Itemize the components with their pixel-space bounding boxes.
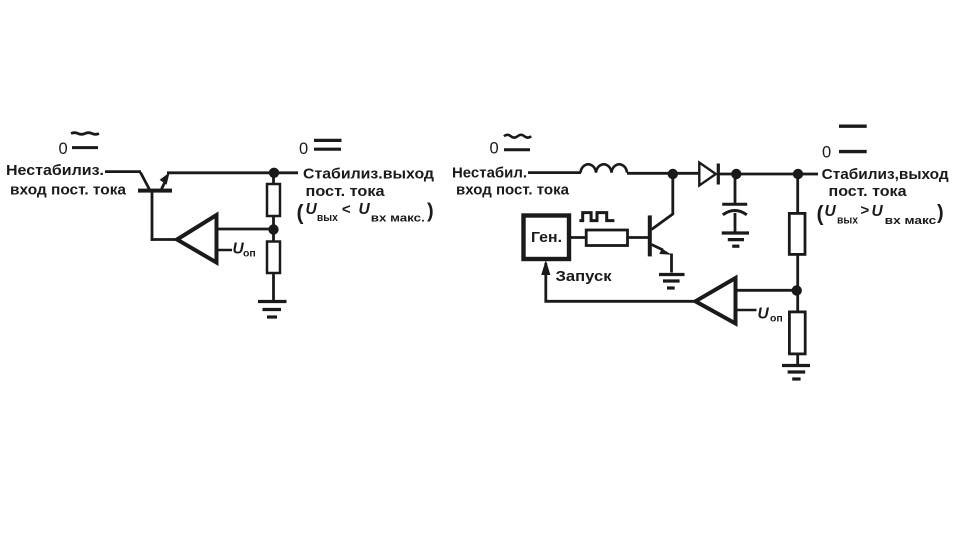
ground G3 (659, 275, 685, 289)
wire: U2 lower input stub (736, 309, 757, 312)
svg-text:пост. тока: пост. тока (306, 183, 386, 200)
svg-text:Стабилиз,выход: Стабилиз,выход (822, 166, 949, 183)
wire: R5 to ground (796, 354, 799, 365)
trigger arrow into generator (541, 260, 550, 300)
wire: node to R1 (272, 177, 275, 184)
wire: node B to node C (741, 173, 803, 176)
resistor R3 (586, 230, 627, 246)
wire: box to R3 (570, 236, 587, 239)
op-amp U2 (695, 278, 735, 324)
svg-text:0: 0 (822, 143, 831, 161)
DC symbol, left output (314, 140, 342, 149)
node: divider midpoint (268, 224, 278, 234)
svg-text:U: U (758, 306, 770, 323)
svg-text:U: U (872, 203, 884, 220)
transistor Q1 (138, 172, 172, 240)
wire: R2 to ground (272, 273, 275, 301)
svg-text:0: 0 (59, 140, 68, 158)
inductor L1 (581, 164, 628, 172)
wire: node B down to capacitor (734, 178, 737, 204)
wire: diode to node B (720, 173, 742, 176)
wire: node A down to Q2 collector (671, 178, 674, 215)
svg-text:вых: вых (317, 212, 339, 224)
svg-text:пост. тока: пост. тока (829, 183, 908, 200)
wire: mid node to op-amp input (217, 228, 271, 231)
wire: node C to output label (803, 173, 818, 176)
label: (Uвых < Uвх макс.) (297, 201, 434, 225)
wire: op-amp lower input stub (217, 249, 233, 252)
node: left output node (269, 168, 279, 178)
svg-text:вых: вых (837, 215, 859, 227)
DC-with-ripple symbol, left input (71, 133, 99, 148)
svg-text:Ген.: Ген. (531, 230, 562, 246)
wire: left input to Q1 emitter (105, 170, 141, 173)
svg-text:вх макс: вх макс (885, 215, 937, 227)
svg-text:U: U (306, 201, 318, 218)
wire: op-amp U2 output to trigger (544, 300, 696, 303)
wire: right input to inductor (528, 171, 581, 174)
node C: output node (793, 169, 803, 179)
svg-text:Нестабилиз.: Нестабилиз. (6, 162, 104, 179)
svg-text:вход пост. тока: вход пост. тока (456, 182, 570, 199)
svg-text:0: 0 (299, 140, 308, 158)
wire: Q1 collector to output node (167, 171, 298, 174)
wire: R4 to node D (796, 254, 799, 287)
wire: R1 to mid node (272, 216, 275, 229)
svg-text:): ) (427, 201, 434, 223)
wire: U2 upper input to node D (736, 289, 795, 292)
transistor Q2 (648, 214, 674, 273)
ground G1 (258, 302, 287, 318)
wire: node C down to R4 (796, 178, 799, 214)
svg-text:0: 0 (490, 140, 499, 158)
ground G2 (722, 233, 749, 246)
diode D1 (699, 163, 718, 186)
svg-text:<: < (342, 201, 351, 218)
node B: cap node (731, 169, 741, 179)
label: (Uвых > Uвх макс) (817, 202, 944, 227)
node D: feedback node (792, 285, 802, 295)
svg-text:U: U (825, 203, 837, 220)
wire: inductor to node A (627, 172, 699, 175)
capacitor C1 (722, 204, 747, 231)
wire: node D down to R5 (796, 294, 799, 312)
svg-text:Запуск: Запуск (556, 268, 613, 285)
svg-text:>: > (861, 202, 870, 219)
wire: R3 to Q2 base (628, 236, 649, 239)
svg-text:U: U (359, 201, 371, 218)
generator box Ген. (524, 216, 570, 260)
node A: switch node (668, 169, 678, 179)
ground G4 (782, 366, 810, 380)
pulse waveform symbol (579, 213, 614, 221)
svg-text:оп: оп (243, 248, 256, 260)
wire: op-amp output to Q1 base (151, 238, 178, 241)
resistor R2 (267, 242, 280, 274)
svg-text:Нестабил.: Нестабил. (452, 165, 527, 182)
svg-text:): ) (937, 202, 944, 224)
svg-text:(: ( (817, 203, 824, 226)
svg-text:Стабилиз.выход: Стабилиз.выход (303, 166, 434, 183)
svg-text:(: ( (297, 202, 304, 225)
DC-with-ripple symbol, right input (504, 135, 531, 150)
svg-text:вход пост. тока: вход пост. тока (10, 182, 127, 199)
wire: mid node to R2 (272, 234, 275, 242)
svg-text:оп: оп (770, 313, 783, 325)
DC symbol, right output (839, 126, 867, 151)
resistor R4 (789, 213, 805, 254)
resistor R1 (267, 184, 280, 216)
resistor R5 (789, 312, 805, 354)
svg-text:вх макс.: вх макс. (371, 213, 425, 225)
op-amp U1 (177, 215, 217, 263)
